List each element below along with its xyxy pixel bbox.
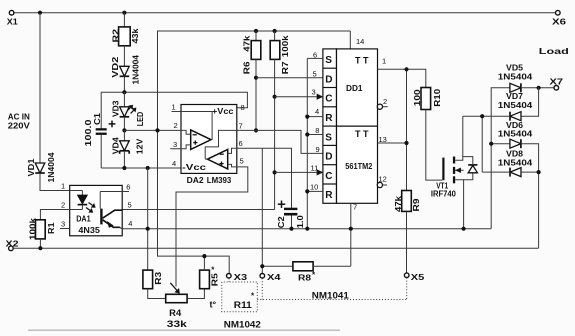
svg-text:100.0: 100.0 (84, 119, 93, 147)
svg-text:T T: T T (355, 129, 369, 139)
svg-text:R: R (325, 113, 333, 124)
svg-text:1N5404: 1N5404 (498, 158, 533, 167)
svg-text:S: S (325, 132, 332, 143)
svg-text:1N5404: 1N5404 (498, 101, 533, 110)
svg-text:7: 7 (353, 203, 357, 212)
svg-text:DA1: DA1 (76, 215, 91, 224)
svg-text:R1: R1 (47, 222, 56, 234)
svg-text:VD5: VD5 (506, 64, 524, 73)
svg-text:10: 10 (310, 182, 318, 191)
svg-text:VD4: VD4 (111, 137, 120, 155)
svg-text:DA2: DA2 (187, 175, 204, 185)
svg-text:NM1041: NM1041 (312, 290, 349, 300)
svg-text:6: 6 (239, 139, 243, 148)
svg-text:IRF740: IRF740 (431, 190, 457, 199)
svg-text:VD8: VD8 (506, 150, 524, 159)
svg-text:1N5404: 1N5404 (498, 130, 533, 139)
svg-text:C2: C2 (277, 216, 286, 229)
svg-text:+Vcc: +Vcc (212, 106, 234, 116)
svg-text:220V: 220V (8, 122, 31, 131)
svg-text:Load: Load (539, 46, 569, 56)
svg-text:1N4004: 1N4004 (132, 54, 141, 84)
svg-text:3: 3 (173, 140, 177, 149)
svg-text:4N35: 4N35 (78, 226, 100, 235)
svg-text:X5: X5 (411, 273, 425, 282)
svg-text:11: 11 (311, 163, 319, 172)
svg-text:DD1: DD1 (346, 83, 363, 93)
svg-text:R11: R11 (234, 300, 252, 310)
svg-text:4: 4 (315, 107, 319, 116)
svg-text:AC IN: AC IN (8, 113, 30, 122)
svg-text:X6: X6 (552, 18, 567, 27)
svg-text:LM393: LM393 (207, 175, 232, 185)
svg-text:VD1: VD1 (27, 158, 36, 177)
svg-text:561TM2: 561TM2 (345, 162, 372, 171)
svg-text:47k: 47k (243, 35, 252, 52)
svg-text:4: 4 (172, 159, 176, 168)
svg-text:2: 2 (383, 97, 387, 106)
svg-text:R7: R7 (281, 61, 290, 74)
svg-text:C: C (325, 94, 332, 105)
svg-text:X1: X1 (7, 18, 19, 27)
svg-text:1N4004: 1N4004 (47, 152, 56, 183)
svg-text:D: D (325, 74, 332, 85)
svg-text:R5: R5 (211, 273, 220, 287)
svg-text:1: 1 (61, 182, 65, 191)
svg-text:2: 2 (61, 201, 65, 210)
svg-text:VD3: VD3 (111, 100, 120, 117)
svg-text:3: 3 (312, 87, 316, 96)
svg-text:6: 6 (126, 182, 130, 191)
svg-text:R2: R2 (111, 28, 120, 42)
svg-text:R10: R10 (433, 88, 442, 107)
svg-text:C1: C1 (93, 112, 102, 125)
svg-text:X2: X2 (6, 239, 20, 248)
svg-text:LED: LED (136, 112, 145, 127)
svg-text:t°: t° (210, 300, 217, 310)
svg-text:1.0: 1.0 (296, 215, 305, 229)
svg-text:R3: R3 (154, 271, 163, 285)
svg-text:S: S (325, 55, 332, 66)
svg-text:R8: R8 (298, 274, 312, 283)
svg-text:NM1042: NM1042 (224, 320, 261, 330)
svg-text:R: R (325, 190, 333, 201)
svg-text:5: 5 (313, 70, 317, 79)
svg-text:R6: R6 (243, 61, 252, 74)
svg-text:12V: 12V (136, 138, 145, 154)
svg-text:47k: 47k (394, 195, 403, 212)
svg-text:5: 5 (240, 157, 244, 166)
svg-text:3: 3 (61, 220, 65, 229)
svg-text:8: 8 (315, 126, 319, 135)
svg-text:X4: X4 (267, 273, 281, 282)
svg-text:1N5404: 1N5404 (498, 72, 533, 81)
svg-text:R9: R9 (412, 198, 421, 212)
svg-text:100k: 100k (28, 217, 37, 240)
svg-text:7: 7 (239, 122, 243, 131)
svg-text:33k: 33k (167, 319, 188, 329)
svg-text:C: C (325, 171, 332, 182)
svg-text:2: 2 (174, 121, 178, 130)
svg-text:14: 14 (356, 37, 364, 46)
svg-text:43k: 43k (131, 28, 140, 44)
svg-text:9: 9 (316, 145, 320, 154)
svg-text:VD7: VD7 (506, 92, 524, 101)
svg-text:X3: X3 (234, 273, 248, 282)
svg-text:4: 4 (128, 219, 132, 228)
svg-text:5: 5 (128, 201, 132, 210)
svg-text:VD2: VD2 (111, 56, 120, 78)
svg-text:1: 1 (382, 57, 386, 66)
svg-text:D: D (325, 152, 332, 163)
svg-text:-Vcc: -Vcc (182, 162, 206, 172)
svg-text:100: 100 (413, 89, 422, 107)
svg-text:R4: R4 (169, 308, 181, 318)
svg-text:X7: X7 (550, 78, 564, 87)
svg-text:VD6: VD6 (506, 121, 524, 130)
svg-text:100k: 100k (281, 35, 290, 57)
svg-text:1: 1 (172, 103, 176, 112)
svg-text:8: 8 (241, 103, 245, 112)
svg-text:T T: T T (355, 56, 369, 66)
